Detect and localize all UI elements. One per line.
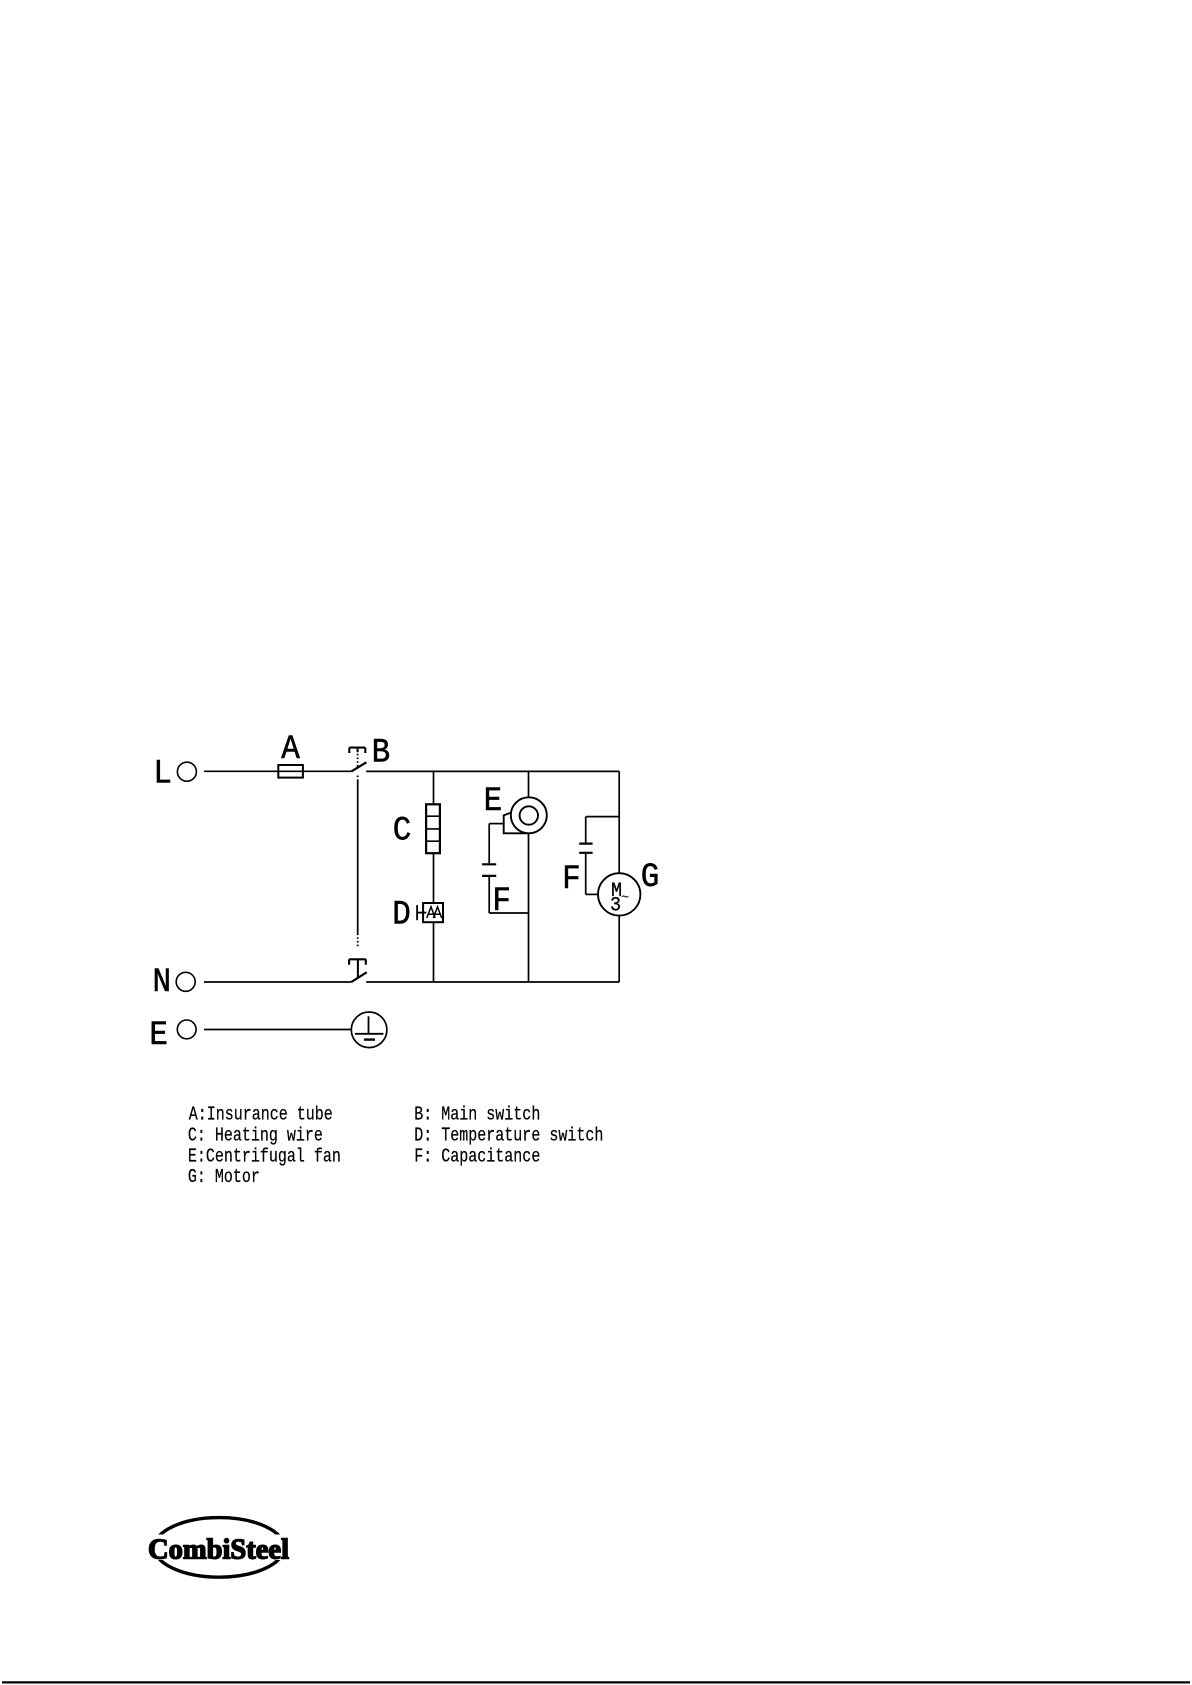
svg-text:F: F <box>492 882 511 921</box>
svg-text:L: L <box>153 754 172 793</box>
svg-text:F: Capacitance: F: Capacitance <box>414 1147 540 1168</box>
svg-text:B: B <box>372 733 391 772</box>
svg-text:D: Temperature switch: D: Temperature switch <box>414 1126 603 1147</box>
svg-text:~: ~ <box>621 890 629 907</box>
svg-text:CombiSteel: CombiSteel <box>148 1534 289 1566</box>
svg-text:N: N <box>153 963 172 1002</box>
svg-text:A:Insurance tube: A:Insurance tube <box>189 1105 333 1126</box>
svg-text:G: Motor: G: Motor <box>188 1168 260 1189</box>
svg-text:3: 3 <box>610 894 621 917</box>
svg-text:G: G <box>641 858 660 897</box>
svg-text:D: D <box>392 895 411 934</box>
svg-text:E:Centrifugal fan: E:Centrifugal fan <box>188 1147 341 1168</box>
svg-text:B: Main switch: B: Main switch <box>414 1105 540 1126</box>
svg-text:A: A <box>281 730 300 769</box>
svg-text:C: Heating wire: C: Heating wire <box>188 1126 323 1147</box>
svg-text:E: E <box>149 1016 168 1055</box>
svg-text:C: C <box>393 811 412 850</box>
svg-text:E: E <box>484 782 503 821</box>
svg-text:F: F <box>562 860 581 899</box>
